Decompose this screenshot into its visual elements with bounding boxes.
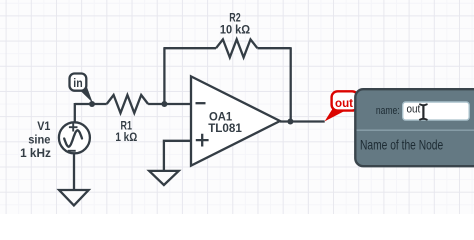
wire feedback top left segment xyxy=(163,47,216,49)
label R2 value 10 kΩ xyxy=(220,22,251,36)
label V1 frequency 1 kHz xyxy=(20,146,51,160)
dialog input value out xyxy=(407,104,421,116)
op-amp OA1 triangle xyxy=(191,76,280,165)
svg-text:out: out xyxy=(335,96,353,110)
svg-text:out: out xyxy=(407,104,421,116)
label R2 xyxy=(229,10,241,24)
op-amp inverting input minus mark xyxy=(196,102,206,104)
svg-text:V1: V1 xyxy=(37,119,50,133)
resistor R2 xyxy=(216,39,257,57)
dialog separator line xyxy=(357,129,474,131)
voltage source V1 circle xyxy=(59,122,90,153)
node in junction dot xyxy=(89,101,95,107)
node label out bubble xyxy=(332,91,359,110)
wire feedback top right segment xyxy=(257,47,290,49)
text cursor I-beam xyxy=(420,104,427,119)
voltage source V1 minus mark xyxy=(68,150,76,152)
svg-text:1 kΩ: 1 kΩ xyxy=(115,130,137,144)
wire feedback right vertical xyxy=(290,47,292,121)
svg-text:TL081: TL081 xyxy=(208,121,242,135)
wire output xyxy=(280,120,325,122)
label R1 xyxy=(121,119,133,133)
label V1 xyxy=(37,119,50,133)
node output junction dot xyxy=(287,119,293,125)
wire non-inverting input to ground xyxy=(164,141,191,171)
dialog text input box xyxy=(403,102,470,120)
ground below op-amp non-inverting input xyxy=(149,171,179,185)
label V1 type sine xyxy=(28,133,50,147)
label TL081 xyxy=(208,121,242,135)
node label in text xyxy=(73,76,82,90)
node name dialog panel xyxy=(355,89,474,166)
wire input horizontal from V1 corner to op-amp inverting input xyxy=(75,103,191,105)
node label out text xyxy=(335,96,353,110)
label OA1 xyxy=(209,110,232,124)
dialog label name: xyxy=(376,105,400,117)
label R1 value 1 kΩ xyxy=(115,130,137,144)
svg-text:in: in xyxy=(73,76,82,90)
node label in tail xyxy=(80,86,93,103)
svg-text:10 kΩ: 10 kΩ xyxy=(220,22,251,36)
op-amp non-inverting input plus mark xyxy=(196,134,209,147)
svg-text:1 kHz: 1 kHz xyxy=(20,146,51,160)
wire V1 top lead vertical xyxy=(74,103,76,123)
ground below V1 xyxy=(59,190,89,205)
node label in bubble xyxy=(70,74,87,91)
wire V1 bottom lead xyxy=(73,153,75,190)
node label out tail xyxy=(325,108,345,121)
svg-text:name:: name: xyxy=(376,105,400,117)
resistor R1 xyxy=(107,95,148,113)
svg-text:Name of the Node: Name of the Node xyxy=(360,136,443,152)
voltage source V1 sine wave xyxy=(64,130,82,146)
wire feedback left vertical xyxy=(163,48,165,105)
voltage source V1 plus mark xyxy=(69,123,78,132)
node junction R1 R2 inverting input dot xyxy=(161,101,167,107)
dialog description Name of the Node xyxy=(360,136,443,152)
svg-text:sine: sine xyxy=(28,133,50,147)
